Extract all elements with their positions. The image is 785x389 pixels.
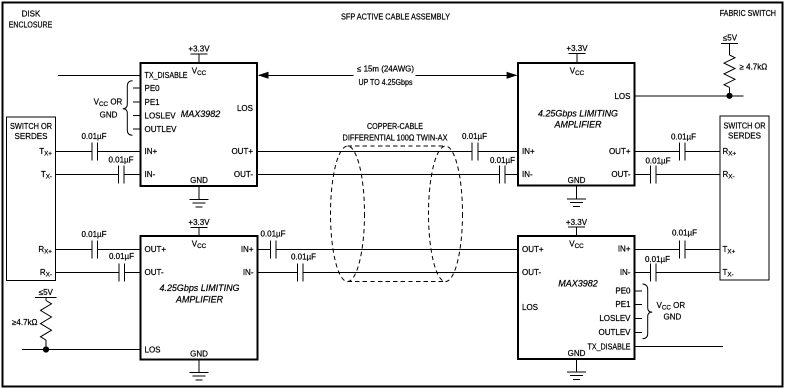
svg-text:+3.3V: +3.3V bbox=[566, 218, 588, 227]
wire C2 to U1 IN- bbox=[124, 173, 141, 175]
svg-text:0.01µF: 0.01µF bbox=[671, 132, 696, 141]
svg-text:OUT+: OUT+ bbox=[145, 245, 167, 254]
svg-text:OUT+: OUT+ bbox=[231, 147, 253, 156]
U2 ground bbox=[567, 186, 586, 207]
svg-text:VCC OR: VCC OR bbox=[657, 301, 686, 311]
svg-text:IN+: IN+ bbox=[522, 147, 535, 156]
svg-text:IN-: IN- bbox=[522, 170, 533, 179]
U1 brace bbox=[123, 81, 133, 136]
arrowhead left bbox=[258, 72, 269, 79]
U1 VCC OR GND label bbox=[94, 98, 123, 120]
svg-text:0.01µF: 0.01µF bbox=[108, 155, 133, 164]
svg-text:0.01µF: 0.01µF bbox=[462, 132, 487, 141]
wire C12 to U4 IN- bbox=[635, 271, 651, 273]
svg-text:LOS: LOS bbox=[522, 303, 538, 312]
U3 ground bbox=[190, 360, 209, 380]
capacitor C10 0.01uF bbox=[651, 165, 657, 183]
capacitor C3 0.01uF bbox=[92, 240, 98, 258]
svg-text:MAX3982: MAX3982 bbox=[181, 109, 221, 119]
svg-text:+3.3V: +3.3V bbox=[566, 44, 588, 53]
svg-text:GND: GND bbox=[190, 350, 208, 359]
svg-text:IN+: IN+ bbox=[618, 245, 631, 254]
wire U3 OUT+ to C3 bbox=[98, 248, 141, 250]
svg-text:PE1: PE1 bbox=[145, 98, 161, 107]
svg-text:0.01µF: 0.01µF bbox=[490, 156, 515, 165]
wire U1 OUT- through cable to C6 bbox=[257, 173, 500, 175]
svg-text:0.01µF: 0.01µF bbox=[109, 252, 134, 261]
svg-text:MAX3982: MAX3982 bbox=[558, 279, 598, 289]
U3 LOS wire bbox=[22, 349, 141, 351]
copper cable cylinder right ellipse bbox=[429, 146, 463, 282]
svg-text:IN-: IN- bbox=[145, 170, 156, 179]
svg-text:OUTLEV: OUTLEV bbox=[145, 125, 178, 134]
svg-text:SWITCH OR: SWITCH OR bbox=[724, 121, 766, 130]
svg-text:0.01µF: 0.01µF bbox=[81, 230, 106, 239]
svg-text:GND: GND bbox=[568, 176, 586, 185]
U4 brace bbox=[643, 284, 653, 339]
svg-text:0.01µF: 0.01µF bbox=[291, 252, 316, 261]
svg-text:≤5V: ≤5V bbox=[723, 34, 738, 43]
cable length arrow line right segment bbox=[416, 74, 517, 76]
svg-text:FABRIC SWITCH: FABRIC SWITCH bbox=[720, 9, 776, 18]
svg-text:+3.3V: +3.3V bbox=[188, 44, 210, 53]
svg-text:LOS: LOS bbox=[614, 92, 630, 101]
wire right serdes TX+ to C11 bbox=[685, 248, 720, 250]
svg-text:OUTLEV: OUTLEV bbox=[598, 328, 631, 337]
svg-text:0.01µF: 0.01µF bbox=[260, 229, 285, 238]
pull-up supply <=5V bottom left bbox=[35, 288, 56, 301]
capacitor C7 0.01uF bbox=[271, 240, 277, 258]
wire C7 to U3 IN+ bbox=[258, 248, 271, 250]
copper cable bottom dashed line bbox=[348, 281, 446, 283]
wire U3 OUT- to C4 bbox=[125, 271, 141, 273]
left SWITCH OR SERDES box bbox=[7, 117, 56, 281]
svg-text:ENCLOSURE: ENCLOSURE bbox=[9, 21, 53, 30]
svg-text:GND: GND bbox=[100, 110, 118, 119]
wire C6 to U2 IN- bbox=[505, 173, 518, 175]
svg-text:0.01µF: 0.01µF bbox=[645, 255, 670, 264]
svg-text:0.01µF: 0.01µF bbox=[672, 229, 697, 238]
svg-text:LOS: LOS bbox=[237, 104, 253, 113]
wire TX- serdes to C2 bbox=[56, 173, 119, 175]
svg-text:0.01µF: 0.01µF bbox=[645, 157, 670, 166]
svg-text:SERDES: SERDES bbox=[728, 131, 761, 140]
svg-text:PE0: PE0 bbox=[145, 84, 161, 93]
wire U1 OUT+ through cable to C5 bbox=[257, 150, 472, 152]
svg-text:≤5V: ≤5V bbox=[39, 288, 54, 297]
wire TX+ serdes to C1 bbox=[56, 150, 93, 152]
svg-text:4.25Gbps LIMITING: 4.25Gbps LIMITING bbox=[160, 283, 240, 293]
svg-text:OUT-: OUT- bbox=[522, 268, 541, 277]
arrowhead right bbox=[507, 72, 518, 79]
U1 TX_DISABLE wire bbox=[58, 74, 141, 76]
svg-text:IN-: IN- bbox=[243, 268, 254, 277]
svg-text:DIFFERENTIAL 100Ω TWIN-AX: DIFFERENTIAL 100Ω TWIN-AX bbox=[343, 133, 449, 142]
wire U4 OUT+ through cable to C7 bbox=[276, 248, 518, 250]
svg-text:PE0: PE0 bbox=[615, 287, 631, 296]
junction dot on U3 LOS bbox=[43, 346, 49, 352]
U4 pin stubs PE0 PE1 LOSLEV OUTLEV bbox=[635, 291, 643, 333]
svg-text:TX_DISABLE: TX_DISABLE bbox=[588, 343, 631, 352]
U2 LOS wire bbox=[635, 95, 744, 97]
capacitor C5 0.01uF bbox=[472, 142, 478, 160]
wire C4 to left serdes RX- bbox=[56, 271, 120, 273]
svg-text:SWITCH OR: SWITCH OR bbox=[10, 122, 52, 131]
wire C10 to right serdes RX- bbox=[656, 173, 720, 175]
svg-text:IN-: IN- bbox=[620, 268, 631, 277]
svg-text:OUT+: OUT+ bbox=[609, 147, 631, 156]
junction dot on U2 LOS bbox=[726, 93, 732, 99]
svg-text:0.01µF: 0.01µF bbox=[81, 132, 106, 141]
U2 +3.3V supply bbox=[566, 44, 588, 63]
IC U4 MAX3982 bottom-right bbox=[518, 236, 635, 359]
right SWITCH OR SERDES box bbox=[720, 116, 769, 280]
svg-text:AMPLIFIER: AMPLIFIER bbox=[554, 120, 602, 130]
capacitor C4 0.01uF bbox=[119, 263, 125, 281]
wire C9 to right serdes RX+ bbox=[685, 150, 720, 152]
capacitor C11 0.01uF bbox=[680, 240, 686, 258]
svg-text:≥ 4.7kΩ: ≥ 4.7kΩ bbox=[740, 62, 768, 71]
svg-text:VCC OR: VCC OR bbox=[94, 98, 123, 108]
wire C8 to U3 IN- bbox=[258, 271, 298, 273]
wire U2 OUT+ to C9 bbox=[635, 150, 680, 152]
svg-text:OUT-: OUT- bbox=[611, 170, 630, 179]
svg-text:≤ 15m (24AWG): ≤ 15m (24AWG) bbox=[357, 65, 414, 74]
U1 pin stubs PE0 PE1 LOSLEV OUTLEV bbox=[133, 88, 141, 129]
copper cable top dashed line bbox=[348, 145, 446, 147]
capacitor C2 0.01uF bbox=[119, 165, 125, 183]
label DISK ENCLOSURE bbox=[9, 10, 53, 30]
svg-text:GND: GND bbox=[568, 349, 586, 358]
capacitor C8 0.01uF bbox=[298, 263, 304, 281]
IC U1 MAX3982 top-left bbox=[141, 63, 258, 186]
resistor R2 >=4.7k bbox=[724, 55, 735, 87]
pull-up supply <=5V top right bbox=[721, 34, 738, 55]
R1 lower lead bbox=[45, 340, 47, 349]
svg-text:OUT+: OUT+ bbox=[522, 245, 544, 254]
U3 +3.3V supply bbox=[188, 218, 210, 236]
svg-text:GND: GND bbox=[664, 313, 682, 322]
R2 lower lead bbox=[729, 87, 731, 95]
wire C5 to U2 IN+ bbox=[478, 150, 518, 152]
resistor R1 >=4.7k bbox=[41, 301, 52, 341]
svg-text:LOSLEV: LOSLEV bbox=[599, 314, 631, 323]
U1 ground bbox=[190, 186, 209, 207]
U1 +3.3V supply bbox=[188, 44, 210, 63]
svg-text:PE1: PE1 bbox=[615, 300, 631, 309]
svg-text:COPPER-CABLE: COPPER-CABLE bbox=[367, 122, 423, 131]
svg-text:OUT-: OUT- bbox=[145, 268, 164, 277]
cable length arrow line left segment bbox=[259, 74, 354, 76]
capacitor C6 0.01uF bbox=[500, 165, 506, 183]
svg-text:4.25Gbps LIMITING: 4.25Gbps LIMITING bbox=[538, 109, 618, 119]
svg-text:OUT-: OUT- bbox=[234, 170, 253, 179]
wire C1 to U1 IN+ bbox=[98, 150, 141, 152]
U4 TX_DISABLE wire bbox=[635, 346, 724, 348]
U4 ground bbox=[567, 359, 586, 379]
wire C11 to U4 IN+ bbox=[635, 248, 680, 250]
svg-text:LOS: LOS bbox=[145, 346, 161, 355]
svg-text:DISK: DISK bbox=[22, 10, 41, 19]
capacitor C12 0.01uF bbox=[651, 263, 657, 281]
svg-text:≥4.7kΩ: ≥4.7kΩ bbox=[12, 318, 38, 327]
svg-text:LOSLEV: LOSLEV bbox=[145, 111, 177, 120]
wire U4 OUT- through cable to C8 bbox=[303, 271, 518, 273]
svg-text:IN+: IN+ bbox=[241, 245, 254, 254]
wire U2 OUT- to C10 bbox=[635, 173, 651, 175]
wire C3 to left serdes RX+ bbox=[56, 248, 93, 250]
svg-text:GND: GND bbox=[190, 176, 208, 185]
capacitor C1 0.01uF bbox=[92, 142, 98, 160]
capacitor C9 0.01uF bbox=[680, 142, 686, 160]
wire right serdes TX- to C12 bbox=[656, 271, 720, 273]
svg-text:IN+: IN+ bbox=[145, 147, 158, 156]
svg-text:SFP ACTIVE CABLE ASSEMBLY: SFP ACTIVE CABLE ASSEMBLY bbox=[341, 13, 451, 22]
svg-text:+3.3V: +3.3V bbox=[188, 218, 210, 227]
svg-text:UP TO 4.25Gbps: UP TO 4.25Gbps bbox=[359, 78, 413, 87]
IC U2 4.25Gbps limiting amplifier top-right bbox=[518, 63, 635, 186]
U4 VCC OR GND label bbox=[657, 301, 686, 322]
copper cable cylinder left ellipse bbox=[331, 146, 365, 282]
svg-text:TX_DISABLE: TX_DISABLE bbox=[145, 71, 188, 80]
IC U3 4.25Gbps limiting amplifier bottom-left bbox=[141, 236, 258, 360]
U4 +3.3V supply bbox=[566, 218, 588, 236]
svg-text:SERDES: SERDES bbox=[15, 132, 48, 141]
svg-text:AMPLIFIER: AMPLIFIER bbox=[175, 295, 223, 305]
